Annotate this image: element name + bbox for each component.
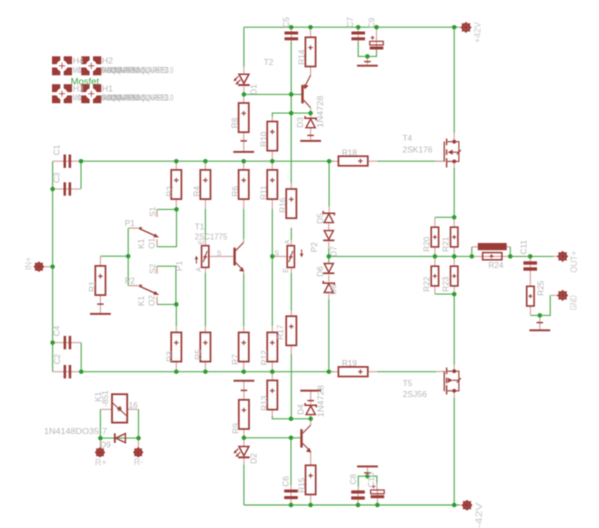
pin C2 left	[53, 371, 64, 373]
pin C10 bottom	[376, 499, 378, 505]
label R14	[298, 49, 307, 64]
capacitor C1	[62, 155, 72, 168]
label K1 contact1	[137, 238, 146, 248]
label -851	[101, 390, 110, 407]
pin D6 top	[328, 262, 330, 263]
ground above D4	[300, 390, 321, 401]
label R12	[260, 350, 269, 365]
label K1 contact2	[137, 296, 146, 306]
svg-text:R6: R6	[231, 186, 240, 197]
pin R3 top	[175, 326, 177, 332]
pin D2 bottom	[243, 458, 245, 464]
svg-text:T2: T2	[264, 58, 274, 67]
wire R13 bottom jog	[272, 416, 310, 419]
svg-text:R12: R12	[260, 350, 269, 365]
svg-text:C4: C4	[52, 325, 61, 336]
svg-text:C10: C10	[367, 472, 376, 487]
diode D7	[323, 231, 334, 242]
label R-	[134, 457, 144, 467]
label R21	[442, 236, 451, 251]
pin R11 top	[271, 161, 273, 170]
pin R20 top	[434, 217, 436, 227]
wire R20 top jog	[435, 216, 454, 218]
wire R22 bottom jog	[435, 293, 454, 295]
pin D7 bottom	[328, 242, 330, 248]
pin R17 bottom	[290, 345, 292, 354]
wire output row right	[510, 255, 553, 257]
label S pot2	[274, 251, 279, 258]
wire R16 to pot P2	[290, 228, 292, 241]
svg-text:R21: R21	[442, 236, 451, 251]
wire D9 net	[100, 437, 138, 439]
transistor T3 emitter	[303, 443, 311, 452]
pin R21 top	[453, 217, 455, 227]
resistor R19	[338, 367, 367, 377]
pad -42V	[462, 500, 472, 510]
capacitor C3	[62, 182, 72, 195]
label D6	[316, 266, 325, 277]
svg-text:R5: R5	[194, 349, 203, 360]
transistor T3 collector	[303, 425, 311, 433]
label C11	[520, 240, 529, 255]
label 1N4728 top	[316, 95, 325, 127]
label IN+	[24, 257, 34, 270]
ground below R8	[233, 141, 254, 153]
wire C9 to ground	[367, 49, 376, 57]
ground below R1	[90, 304, 111, 315]
label C4	[52, 325, 61, 336]
label R10	[260, 131, 269, 146]
pin R24 left	[472, 255, 511, 257]
resistor R16	[286, 189, 296, 218]
pin T3 collector	[310, 419, 312, 425]
resistor R20	[431, 227, 438, 247]
svg-text:R-: R-	[134, 457, 144, 467]
svg-text:D5: D5	[316, 213, 325, 224]
pin D5-D7 link	[328, 224, 330, 231]
resistor R5	[200, 332, 210, 361]
pin D4 cathode to gnd	[310, 392, 312, 404]
label R9	[231, 423, 240, 434]
transistor T3 base bar	[300, 429, 302, 447]
label D4	[297, 404, 306, 415]
wire R24 left jog	[471, 247, 473, 257]
pin T5 source lead	[453, 365, 455, 370]
svg-text:1N4728: 1N4728	[316, 95, 325, 127]
pin R13 bottom	[271, 410, 273, 416]
pin R23 top	[453, 256, 455, 266]
pin R11 bottom	[271, 199, 273, 209]
label C10	[367, 472, 376, 487]
wire T1 emitter to R7	[243, 274, 245, 327]
pin O1 stub	[156, 239, 158, 247]
resistor R13	[267, 380, 277, 409]
zener diode D3	[305, 116, 316, 128]
pin R10 bottom	[271, 151, 273, 161]
svg-text:R9: R9	[231, 423, 240, 434]
pin D3 top	[310, 113, 312, 117]
svg-text:-42V: -42V	[474, 502, 485, 528]
capacitor C5	[285, 31, 299, 41]
label A pot2	[285, 239, 292, 244]
wire T4 source to R20/R21	[453, 168, 455, 218]
pin R24 block stubs	[472, 246, 511, 248]
text MOUNT-PAD H4	[73, 66, 145, 75]
pin C5 top	[290, 27, 292, 31]
svg-text:K1: K1	[137, 296, 146, 306]
pin R6 top	[243, 161, 245, 170]
svg-text:T5: T5	[403, 379, 413, 388]
svg-text:R15: R15	[298, 477, 307, 492]
label R7	[231, 354, 240, 365]
wire rail3	[244, 504, 460, 506]
svg-text:2SK176: 2SK176	[403, 146, 433, 155]
pin pot P1 wiper	[209, 255, 234, 257]
wire rail1 right of R18	[377, 160, 436, 162]
wire R3 top	[175, 304, 177, 326]
pin R1 top	[99, 256, 101, 266]
pin R3 bottom	[175, 362, 177, 372]
pin gnd right lead	[539, 315, 541, 329]
wire R1 top to P column	[100, 255, 128, 257]
svg-text:R10: R10	[260, 131, 269, 146]
svg-text:R14: R14	[298, 49, 307, 64]
svg-text:GND: GND	[569, 295, 579, 310]
capacitor C9	[370, 36, 384, 51]
label C8	[349, 474, 358, 485]
svg-text:MOUNT-PAD-SQUARE3.0: MOUNT-PAD-SQUARE3.0	[107, 66, 173, 75]
svg-text:2SJ56: 2SJ56	[403, 390, 427, 399]
LED D2	[233, 447, 249, 459]
svg-text:C1: C1	[53, 144, 62, 155]
pin R5 top	[204, 326, 206, 332]
wire D5 column top	[328, 161, 330, 206]
wire output row	[329, 255, 472, 257]
label 1N4148DO35-7	[44, 427, 107, 436]
svg-text:H4: H4	[73, 56, 84, 66]
svg-text:S: S	[274, 251, 279, 258]
pin R8 bottom to gnd	[243, 133, 245, 151]
label H1	[102, 84, 113, 94]
wire C5 column	[290, 41, 292, 184]
svg-text:P1: P1	[125, 219, 135, 228]
relay contact K1-O1 blade	[139, 227, 159, 238]
wire R17 to lower net	[290, 354, 292, 419]
label T4	[403, 134, 413, 143]
pin bottom gnd lead	[367, 467, 369, 476]
capacitor C4	[62, 336, 72, 349]
ground top near C7/C9	[357, 62, 378, 67]
resistor R18	[338, 156, 367, 166]
svg-text:R22: R22	[423, 276, 432, 291]
label D8	[329, 284, 338, 295]
pin D2 top	[243, 438, 245, 447]
potentiometer P1	[202, 246, 209, 268]
label 16	[129, 401, 139, 410]
pin R14 bottom	[310, 67, 312, 76]
wire T3 base net	[244, 437, 300, 439]
label R20	[423, 236, 432, 251]
svg-text:S1: S1	[149, 206, 158, 216]
pad OUT+	[557, 251, 568, 262]
svg-text:C11: C11	[520, 240, 529, 255]
pin D6-D8 link	[328, 275, 330, 282]
capacitor C10	[371, 485, 385, 500]
ground above C8/C10	[357, 466, 378, 473]
wire D8 to rail2	[328, 300, 330, 372]
pin R19 left	[329, 371, 338, 373]
label D3	[296, 117, 305, 128]
label R2	[166, 186, 175, 197]
pin R25 bottom	[529, 306, 531, 315]
svg-text:R24: R24	[488, 261, 503, 270]
svg-text:O2: O2	[148, 295, 157, 306]
pin C8 top	[357, 487, 359, 491]
transistor T1 collector	[236, 239, 244, 250]
pin C1 left	[53, 160, 64, 162]
svg-text:R23: R23	[442, 276, 451, 291]
wire K1 P column	[127, 228, 129, 286]
label R13	[260, 395, 269, 410]
svg-text:R7: R7	[231, 354, 240, 365]
svg-text:C7: C7	[346, 17, 355, 28]
svg-text:H2: H2	[102, 56, 113, 66]
svg-text:R11: R11	[259, 185, 268, 200]
capacitor C11	[523, 260, 537, 271]
label R15	[298, 477, 307, 492]
pin GND pad lead	[550, 294, 558, 296]
label R1	[88, 281, 97, 292]
label H3	[73, 84, 84, 94]
diode D9	[114, 433, 126, 443]
svg-text:C6: C6	[281, 476, 290, 487]
pin R2 top	[175, 161, 177, 170]
resistor R6	[239, 170, 249, 199]
pin R19 right	[368, 371, 377, 373]
pin R+ lead	[99, 438, 101, 448]
zener diode D8	[323, 281, 334, 293]
label R19	[342, 359, 357, 368]
pin D1 top	[243, 67, 245, 75]
pin C4 left	[53, 342, 64, 344]
wire R6 to T1 collector	[243, 209, 245, 239]
pin D5 top	[328, 207, 330, 213]
zener diode D5	[323, 211, 334, 223]
svg-text:D2: D2	[250, 453, 259, 464]
resistor R15	[306, 465, 316, 494]
pin C9 top	[376, 27, 378, 40]
label 2SK176	[403, 146, 433, 155]
mount pad H1	[81, 84, 102, 104]
label P2 pin	[125, 276, 135, 285]
resistor R2	[171, 170, 181, 199]
wire R24 right jog	[509, 247, 511, 257]
pin C8 bottom	[357, 500, 359, 505]
svg-text:R8: R8	[231, 117, 240, 128]
mount pad H3	[52, 84, 73, 104]
pin T4 drain lead	[453, 133, 455, 141]
zener diode D4	[305, 403, 316, 415]
pad IN+	[34, 262, 44, 272]
pin C6 top	[290, 486, 292, 490]
pin S1 stub	[156, 209, 158, 217]
resistor R17	[286, 316, 296, 345]
text MOUNT-PAD H2	[102, 66, 174, 75]
label T1	[195, 222, 205, 231]
label C1	[53, 144, 62, 155]
label GND	[569, 295, 579, 310]
wire pot P2 to R17	[290, 273, 292, 311]
svg-text:R+: R+	[95, 458, 107, 468]
pin C2 right	[71, 371, 81, 373]
pin R10 top	[271, 117, 273, 122]
label +42V	[473, 22, 483, 43]
svg-text:D4: D4	[297, 404, 306, 415]
svg-text:T1: T1	[195, 222, 205, 231]
svg-text:K1: K1	[137, 238, 146, 248]
pin gnd top lead	[366, 56, 368, 64]
wire C8 jog	[358, 476, 367, 487]
wire C6 column	[290, 438, 292, 486]
wire top +42V rail	[244, 26, 458, 28]
pin R7 bottom	[243, 362, 245, 372]
transistor T2 collector	[304, 100, 311, 108]
pin D1 bottom	[243, 87, 245, 95]
ground above R9	[234, 380, 255, 391]
ground below D3	[300, 135, 321, 141]
wire T4 drain	[453, 27, 455, 133]
pin R1 bottom	[99, 294, 101, 313]
svg-text:R19: R19	[342, 359, 357, 368]
pin R15 bottom	[310, 495, 312, 505]
pin R4 bottom	[204, 199, 206, 209]
label H4	[73, 56, 84, 66]
MOSFET T4	[435, 139, 461, 168]
svg-text:2SC1775: 2SC1775	[195, 233, 228, 242]
pin C3 right	[71, 188, 81, 190]
label R11	[259, 185, 268, 200]
pin R23 bottom	[453, 286, 455, 294]
pin pot P2 bottom E	[290, 267, 292, 273]
pin C6 bottom	[290, 499, 292, 505]
label T5	[403, 379, 413, 388]
pin pot P1 top E	[204, 240, 206, 245]
label P1 pot	[175, 261, 184, 271]
wire R25 bottom to gnd	[530, 295, 550, 315]
wire K1 pin16 down	[138, 409, 140, 438]
transistor T1 emitter	[236, 263, 244, 274]
pad R-	[133, 447, 143, 457]
resistor R1	[95, 266, 105, 295]
pin C1 right	[71, 160, 81, 162]
wire R10 top net	[272, 113, 310, 116]
pin R4 top	[204, 161, 206, 170]
pin R21 bottom	[453, 247, 455, 257]
svg-text:C8: C8	[349, 474, 358, 485]
label R22	[423, 276, 432, 291]
mount pad H2	[81, 56, 102, 76]
svg-text:OUT+: OUT+	[569, 251, 579, 273]
label O1	[148, 237, 157, 248]
pin R22 top	[434, 256, 436, 266]
svg-text:R2: R2	[166, 186, 175, 197]
svg-text:R3: R3	[166, 351, 175, 362]
svg-text:T4: T4	[403, 134, 413, 143]
pin C10 top	[376, 483, 378, 490]
wire D1 column top	[243, 27, 245, 66]
pad GND	[557, 290, 568, 301]
pin R8 top	[243, 94, 245, 103]
pin R22 bottom	[434, 286, 436, 294]
svg-text:R13: R13	[260, 395, 269, 410]
svg-text:O1: O1	[148, 237, 157, 248]
svg-text:R4: R4	[192, 186, 201, 197]
pin R- lead	[137, 438, 139, 448]
svg-text:A: A	[285, 239, 292, 244]
wire R4 to pot P1	[204, 209, 206, 241]
capacitor C8	[351, 489, 365, 500]
label S1	[149, 206, 158, 216]
wire T5 drain to rail3	[453, 398, 455, 506]
wire wiper dot to R12	[271, 256, 273, 326]
pin -42V pad lead	[459, 504, 462, 506]
pin OUT+ pad lead	[553, 255, 558, 257]
pin T5 gate	[436, 370, 444, 372]
pin R20 bottom	[434, 247, 436, 257]
pin T2 collector	[310, 108, 312, 113]
pin R18 left	[329, 160, 338, 162]
mount pad H4	[52, 56, 73, 76]
pin R9 bottom	[243, 428, 245, 437]
svg-text:1N4148DO35-7: 1N4148DO35-7	[44, 427, 107, 436]
resistor R14	[305, 37, 315, 66]
svg-text:R20: R20	[423, 236, 432, 251]
pin K1 coil right	[127, 408, 138, 410]
label D7	[329, 246, 338, 257]
resistor R11	[267, 170, 277, 199]
pin C4 right	[71, 342, 81, 344]
label D9	[100, 441, 111, 450]
wire C10 jog	[368, 476, 377, 483]
wire C7 to ground	[358, 41, 367, 57]
label C2	[53, 353, 62, 364]
svg-text:16: 16	[129, 401, 139, 410]
capacitor C6	[284, 489, 298, 501]
label R18	[342, 148, 357, 157]
label E pot2	[283, 268, 290, 273]
wire K1 pin1 down	[99, 409, 101, 438]
wire rail2 right of R19	[377, 371, 436, 373]
svg-text:R16: R16	[278, 197, 287, 212]
resistor R4	[200, 170, 210, 199]
pin pot P2 top A	[290, 240, 292, 245]
transistor T2 emitter	[304, 75, 311, 89]
label R17	[276, 324, 285, 339]
resistor R3	[171, 332, 181, 361]
label 2SJ56	[403, 390, 427, 399]
wire pot P1 to R5	[204, 273, 206, 326]
pin C7 top	[357, 27, 359, 31]
label S pot1	[217, 251, 222, 258]
resistor R23	[451, 266, 458, 286]
transistor T1 base bar	[233, 248, 235, 266]
pad R+	[95, 447, 105, 457]
pin R18 right	[368, 160, 377, 162]
label Mosfet	[71, 76, 100, 86]
resistor R22	[431, 266, 438, 286]
wire R11 to wiper dot	[271, 209, 273, 257]
svg-text:D7: D7	[329, 246, 338, 257]
